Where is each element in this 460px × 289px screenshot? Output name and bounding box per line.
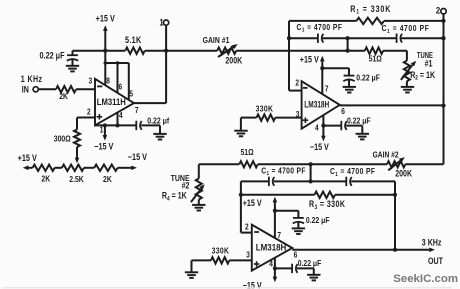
scan artifact strip xyxy=(2,287,452,288)
power +15V arrow (LM311) xyxy=(103,25,108,50)
svg-text:2K: 2K xyxy=(41,174,50,184)
ground (330K input U2) xyxy=(234,118,247,137)
wire row B right xyxy=(351,181,395,194)
op-amp U1 minus sign xyxy=(97,85,102,87)
capacitor 0.22uF -15 bypass (U2) xyxy=(341,121,362,130)
wire pin 4 drop (U2) xyxy=(321,115,326,141)
terminal 2 xyxy=(441,9,446,14)
svg-text:0.22 μF: 0.22 μF xyxy=(298,258,322,268)
op-amp U2 plus sign xyxy=(303,117,309,123)
svg-text:0.22 μF: 0.22 μF xyxy=(356,73,380,83)
wiper arrow to 2.5K pot xyxy=(75,147,80,163)
wire pin 2 to 300 ohm xyxy=(77,118,95,130)
wire +15V bypass branch (U3) xyxy=(275,211,299,218)
wire input to 2K xyxy=(38,88,56,90)
resistor R1 330K label xyxy=(350,4,391,16)
wire 51 ohm feed xyxy=(348,50,365,52)
resistor 300 ohm xyxy=(74,130,80,148)
wire 330K input left (U3) xyxy=(192,259,211,261)
resistor 2K left label xyxy=(41,174,50,184)
op-amp U2 LM318H triangle xyxy=(302,81,340,129)
resistor R1 330K xyxy=(356,18,384,24)
capacitor C1 4700PF (a) label xyxy=(297,22,343,34)
wire pot chain with end arrows xyxy=(23,166,137,171)
op-amp U1 LM311H triangle xyxy=(95,79,134,126)
node junction pin8 strap xyxy=(104,61,108,65)
wire right bus vertical xyxy=(443,14,445,164)
wire C-row right xyxy=(401,37,443,39)
wire feedback left vertical xyxy=(288,21,290,91)
ground (TUNE #2) xyxy=(192,200,205,211)
node junction +15V rail xyxy=(103,49,107,53)
resistor 2K input xyxy=(56,86,76,92)
svg-text:6: 6 xyxy=(294,250,298,260)
capacitor C1 4700PF (d) xyxy=(346,177,351,186)
output label 3 KHz OUT xyxy=(422,238,443,266)
svg-text:LM311H: LM311H xyxy=(97,97,126,107)
svg-text:7: 7 xyxy=(277,230,281,240)
wire pin 6 drop xyxy=(117,63,119,93)
ground (+15 bypass U2) xyxy=(343,80,356,93)
node junction pin 4 (U2) xyxy=(321,124,325,128)
potentiometer TUNE #1 R2 1K xyxy=(404,61,410,82)
wire output row (U2) xyxy=(340,104,444,106)
op-amp U1 plus sign xyxy=(97,114,103,120)
capacitor C1 4700PF (a) xyxy=(318,34,323,43)
wire C-mid vertical xyxy=(347,38,349,51)
terminal 1 label xyxy=(159,17,163,28)
svg-text:2: 2 xyxy=(87,107,91,117)
svg-text:+15 V: +15 V xyxy=(18,153,38,163)
svg-text:8: 8 xyxy=(106,76,110,86)
svg-text:−15 V: −15 V xyxy=(310,142,329,152)
svg-text:LM318H: LM318H xyxy=(256,243,287,253)
terminal 2 label xyxy=(436,5,440,16)
op-amp U3 LM318H triangle xyxy=(252,225,292,271)
resistor 330K input (U3) xyxy=(211,257,229,263)
wire row B middle xyxy=(274,180,346,182)
node junction row C right xyxy=(393,193,397,197)
resistor 5.1K label xyxy=(125,35,142,45)
wire C-row middle xyxy=(323,37,397,39)
potentiometer GAIN #2 200K xyxy=(387,161,405,167)
pin 4 label (U2) xyxy=(315,123,319,133)
potentiometer TUNE #2 label xyxy=(171,173,190,190)
potentiometer 2.5K label xyxy=(69,174,84,184)
svg-text:2.5K: 2.5K xyxy=(69,174,84,184)
wire LM311 bottom rail xyxy=(95,124,136,126)
wire pins 5-6-8 strap xyxy=(105,62,129,64)
power -15V label (U2) xyxy=(310,142,329,152)
resistor 2K left xyxy=(33,165,55,171)
svg-text:3: 3 xyxy=(296,109,300,119)
resistor R3 330K xyxy=(315,192,336,198)
pin 2 label xyxy=(87,107,91,117)
capacitor 0.22uF -15 bypass label (U2) xyxy=(347,116,371,126)
node junction right bus/C1 xyxy=(441,36,445,40)
svg-text:IN: IN xyxy=(22,85,29,95)
resistor 2K right xyxy=(94,165,117,171)
node junction pin 4 xyxy=(115,123,119,127)
potentiometer GAIN #1 label xyxy=(203,35,230,45)
wire row A left xyxy=(199,163,240,165)
ground (TUNE #1) xyxy=(401,81,414,92)
resistor 5.1K pull-up xyxy=(125,48,144,54)
node junction pin6 strap xyxy=(116,61,120,65)
output arrow 3KHz xyxy=(429,248,435,253)
potentiometer TUNE #1 value xyxy=(410,70,435,82)
resistor 330K input label (U2) xyxy=(256,104,274,114)
resistor 51 ohm label (integrator 2) xyxy=(241,147,254,157)
wire row B left xyxy=(241,180,269,182)
potentiometer TUNE #2 value xyxy=(162,191,187,203)
node junction pull-up/output xyxy=(164,49,168,53)
svg-text:6: 6 xyxy=(119,82,123,92)
capacitor 0.22uF +15 bypass (U3) xyxy=(293,218,304,224)
wire R1 row right xyxy=(384,20,444,22)
svg-text:300Ω: 300Ω xyxy=(54,134,71,144)
node junction +15V branch (U3) xyxy=(273,209,277,213)
pin 7 label (U3) xyxy=(277,230,281,240)
svg-text:51Ω: 51Ω xyxy=(369,54,382,64)
svg-text:GAIN #1: GAIN #1 xyxy=(203,35,230,45)
svg-text:51Ω: 51Ω xyxy=(241,147,254,157)
svg-text:7: 7 xyxy=(135,105,139,115)
svg-text:SeekIC.com: SeekIC.com xyxy=(393,273,458,285)
svg-text:5: 5 xyxy=(129,89,133,99)
svg-text:+15 V: +15 V xyxy=(96,14,116,24)
ground (330K input U3) xyxy=(185,260,198,278)
node junction row A/C-mid xyxy=(309,162,313,166)
power -15V label (pot chain) xyxy=(128,152,148,162)
svg-text:−15 V: −15 V xyxy=(94,142,114,152)
svg-text:−15 V: −15 V xyxy=(128,152,148,162)
svg-text:330K: 330K xyxy=(256,104,274,114)
wire row A middle xyxy=(258,163,387,165)
svg-text:+15 V: +15 V xyxy=(243,198,262,208)
svg-text:0.22 μF: 0.22 μF xyxy=(40,51,65,61)
potentiometer GAIN #2 label xyxy=(373,150,399,160)
resistor 51 ohm (integrator 1) xyxy=(365,48,383,54)
node junction pin 1 xyxy=(103,123,107,127)
capacitor 0.22uF +15 bypass (U2) xyxy=(343,76,354,82)
power -15V label (LM311 pin1) xyxy=(94,142,114,152)
ground (+15 bypass U3) xyxy=(292,222,305,234)
svg-text:+15 V: +15 V xyxy=(300,55,319,65)
capacitor C1 4700PF (c) xyxy=(269,177,274,186)
svg-text:2: 2 xyxy=(245,222,249,232)
capacitor 0.22uF LM311 bypass xyxy=(136,121,160,130)
capacitor 0.22uF +15 bypass label (U3) xyxy=(306,215,330,225)
wire R1 row left xyxy=(289,20,356,22)
wire 330K to pin 3 (U3) xyxy=(229,259,252,261)
op-amp U3 minus sign xyxy=(254,231,259,233)
pin 3 label xyxy=(89,76,93,86)
wire row C right xyxy=(335,194,395,196)
svg-text:#2: #2 xyxy=(182,181,190,191)
svg-text:GAIN #2: GAIN #2 xyxy=(373,150,399,160)
pin 3 label (U2) xyxy=(296,109,300,119)
pin 1 label xyxy=(100,125,104,135)
svg-text:6: 6 xyxy=(341,106,345,116)
potentiometer TUNE #2 arrow xyxy=(191,184,205,202)
wire pin 5 drop xyxy=(128,63,130,100)
potentiometer TUNE #1 arrow xyxy=(401,61,416,80)
potentiometer GAIN #1 value xyxy=(225,56,242,66)
svg-text:0.22 μF: 0.22 μF xyxy=(306,215,330,225)
svg-text:3: 3 xyxy=(246,250,250,260)
resistor 51 ohm (integrator 2) xyxy=(239,161,257,167)
potentiometer GAIN #1 200K xyxy=(217,48,236,54)
power -15V arrow (LM311 pin1) xyxy=(103,125,108,140)
resistor 330K input (U2) xyxy=(257,114,276,120)
svg-text:3: 3 xyxy=(89,76,93,86)
pin 6 label (U2) xyxy=(341,106,345,116)
svg-text:0.22 μF: 0.22 μF xyxy=(347,116,371,126)
resistor R3 330K label xyxy=(309,199,345,211)
svg-text:2: 2 xyxy=(295,78,299,88)
svg-text:0.22 μf: 0.22 μf xyxy=(147,116,169,126)
potentiometer 2.5K xyxy=(62,165,84,171)
capacitor C1 4700PF (b) xyxy=(397,34,402,43)
pin 7 label xyxy=(135,105,139,115)
wire right vertical (U3 feedback) xyxy=(394,195,396,250)
node junction row C left xyxy=(239,193,243,197)
wire rail to GAIN pot xyxy=(166,50,217,52)
wire pin 4 drop xyxy=(117,113,119,126)
wire C-mid vertical (integrator 2) xyxy=(310,164,312,181)
wire 330K input left (U2) xyxy=(241,117,257,119)
wire pin 2 stub (U3) xyxy=(241,232,252,234)
wire 51 ohm to TUNE pot xyxy=(383,51,407,61)
capacitor C1 4700PF (c) label xyxy=(261,166,305,178)
node junction C-row left xyxy=(287,36,291,40)
node junction output (U3) xyxy=(393,248,397,252)
watermark SeekIC.com xyxy=(393,273,458,285)
svg-text:200K: 200K xyxy=(395,169,412,179)
pin 4 label (U3) xyxy=(269,259,273,269)
capacitor 0.22uF input bypass label xyxy=(40,51,65,61)
op-amp U3 label LM318H xyxy=(256,243,287,253)
wire feedback left vertical (U3) xyxy=(240,181,242,232)
resistor 51 ohm label xyxy=(369,54,382,64)
svg-text:1 KHz: 1 KHz xyxy=(21,74,43,84)
pin 2 label (U2) xyxy=(295,78,299,88)
terminal 1 xyxy=(164,20,169,25)
resistor 2K right label xyxy=(103,174,112,184)
input terminal circle xyxy=(33,87,38,92)
node junction rail/C-mid xyxy=(346,49,350,53)
ground (LM311 bypass cap) xyxy=(153,125,166,139)
op-amp U3 plus sign xyxy=(254,261,260,267)
potentiometer TUNE #2 feed xyxy=(198,164,200,178)
node junction pin 4 (U3) xyxy=(273,266,277,270)
resistor 2K input label xyxy=(59,91,68,101)
pin 7 label (U2) xyxy=(325,84,329,94)
pin 2 label (U3) xyxy=(245,222,249,232)
svg-text:330K: 330K xyxy=(212,246,230,256)
node junction C-row right xyxy=(441,36,445,40)
wire top rail xyxy=(73,50,167,52)
power -15V label (U3) xyxy=(243,281,262,289)
power +15V supply label (LM311) xyxy=(96,14,116,24)
wire +15V bypass branch (U2) xyxy=(322,68,349,75)
wire pin4 cap stub (U2) xyxy=(323,125,341,127)
capacitor 0.22uF -15 bypass (U3) xyxy=(292,264,314,273)
pin 5 label xyxy=(129,89,133,99)
potentiometer GAIN #2 value xyxy=(395,169,412,179)
node junction C-mid (integrator 2) xyxy=(309,179,313,183)
capacitor 0.22uF input bypass xyxy=(67,51,78,66)
resistor 330K input label (U3) xyxy=(212,246,230,256)
svg-text:5.1K: 5.1K xyxy=(125,35,142,45)
input terminal label 1 KHz IN xyxy=(21,74,43,94)
svg-text:#1: #1 xyxy=(425,59,433,69)
wire +15V to pin 8 xyxy=(104,51,106,85)
svg-text:3 KHz: 3 KHz xyxy=(422,238,442,248)
pin 8 label xyxy=(106,76,110,86)
power +15V arrow (U3) xyxy=(273,197,278,238)
power +15V label (U2) xyxy=(300,55,319,65)
pin 3 label (U3) xyxy=(246,250,250,260)
potentiometer GAIN #2 arrow xyxy=(388,157,405,170)
capacitor 0.22uF LM311 bypass label xyxy=(147,116,169,126)
svg-text:2: 2 xyxy=(436,5,440,16)
ground (-15 bypass U3) xyxy=(307,268,320,280)
wire 330K to pin 3 (U2) xyxy=(275,117,301,119)
capacitor 0.22uF -15 bypass label (U3) xyxy=(298,258,322,268)
wire output row (U3) xyxy=(292,249,430,251)
wire GAIN pot to C-mid node xyxy=(236,50,347,52)
capacitor 0.22uF +15 bypass label (U2) xyxy=(356,73,380,83)
wire C-row left xyxy=(289,37,318,39)
node junction +15V branch (U2) xyxy=(320,66,324,70)
wire pin 2 stub (U2) xyxy=(289,90,302,92)
node junction right bus/R1 xyxy=(441,19,445,23)
resistor 300 ohm label xyxy=(54,134,71,144)
wire 2K to pin3 xyxy=(76,88,95,90)
potentiometer GAIN #1 arrow xyxy=(218,44,238,57)
capacitor C1 4700PF (b) label xyxy=(382,23,430,35)
svg-text:2K: 2K xyxy=(59,91,68,101)
svg-text:2K: 2K xyxy=(103,174,112,184)
wire row C (R3) xyxy=(241,194,315,196)
pin 6 label xyxy=(119,82,123,92)
capacitor C1 4700PF (d) label xyxy=(330,166,375,178)
op-amp U2 label LM318H xyxy=(304,100,329,110)
ground (input bypass cap) xyxy=(66,66,79,72)
wire pin 4 drop (U3) xyxy=(273,258,278,282)
node junction right bus/output xyxy=(441,104,445,108)
power +15V label (pot chain) xyxy=(18,153,38,163)
wire row A right xyxy=(405,163,443,165)
svg-text:200K: 200K xyxy=(225,56,242,66)
ground (-15 bypass U2) xyxy=(356,126,369,140)
svg-text:LM318H: LM318H xyxy=(304,100,329,110)
wire terminal1 vertical xyxy=(165,25,167,103)
svg-text:7: 7 xyxy=(325,84,329,94)
op-amp U2 minus sign xyxy=(303,87,308,89)
op-amp U1 label LM311H xyxy=(97,97,126,107)
wire pin4 cap stub (U3) xyxy=(275,267,292,269)
svg-text:OUT: OUT xyxy=(428,256,443,266)
potentiometer TUNE #2 R4 1K xyxy=(196,179,202,200)
potentiometer TUNE #1 label xyxy=(417,50,433,68)
wire LM311 output pin 7 xyxy=(134,102,166,104)
pin 6 label (U3) xyxy=(294,250,298,260)
pin 4 label xyxy=(119,110,123,120)
node junction C-mid xyxy=(346,36,350,40)
power +15V label (U3) xyxy=(243,198,262,208)
power +15V arrow (U2) xyxy=(320,56,325,94)
